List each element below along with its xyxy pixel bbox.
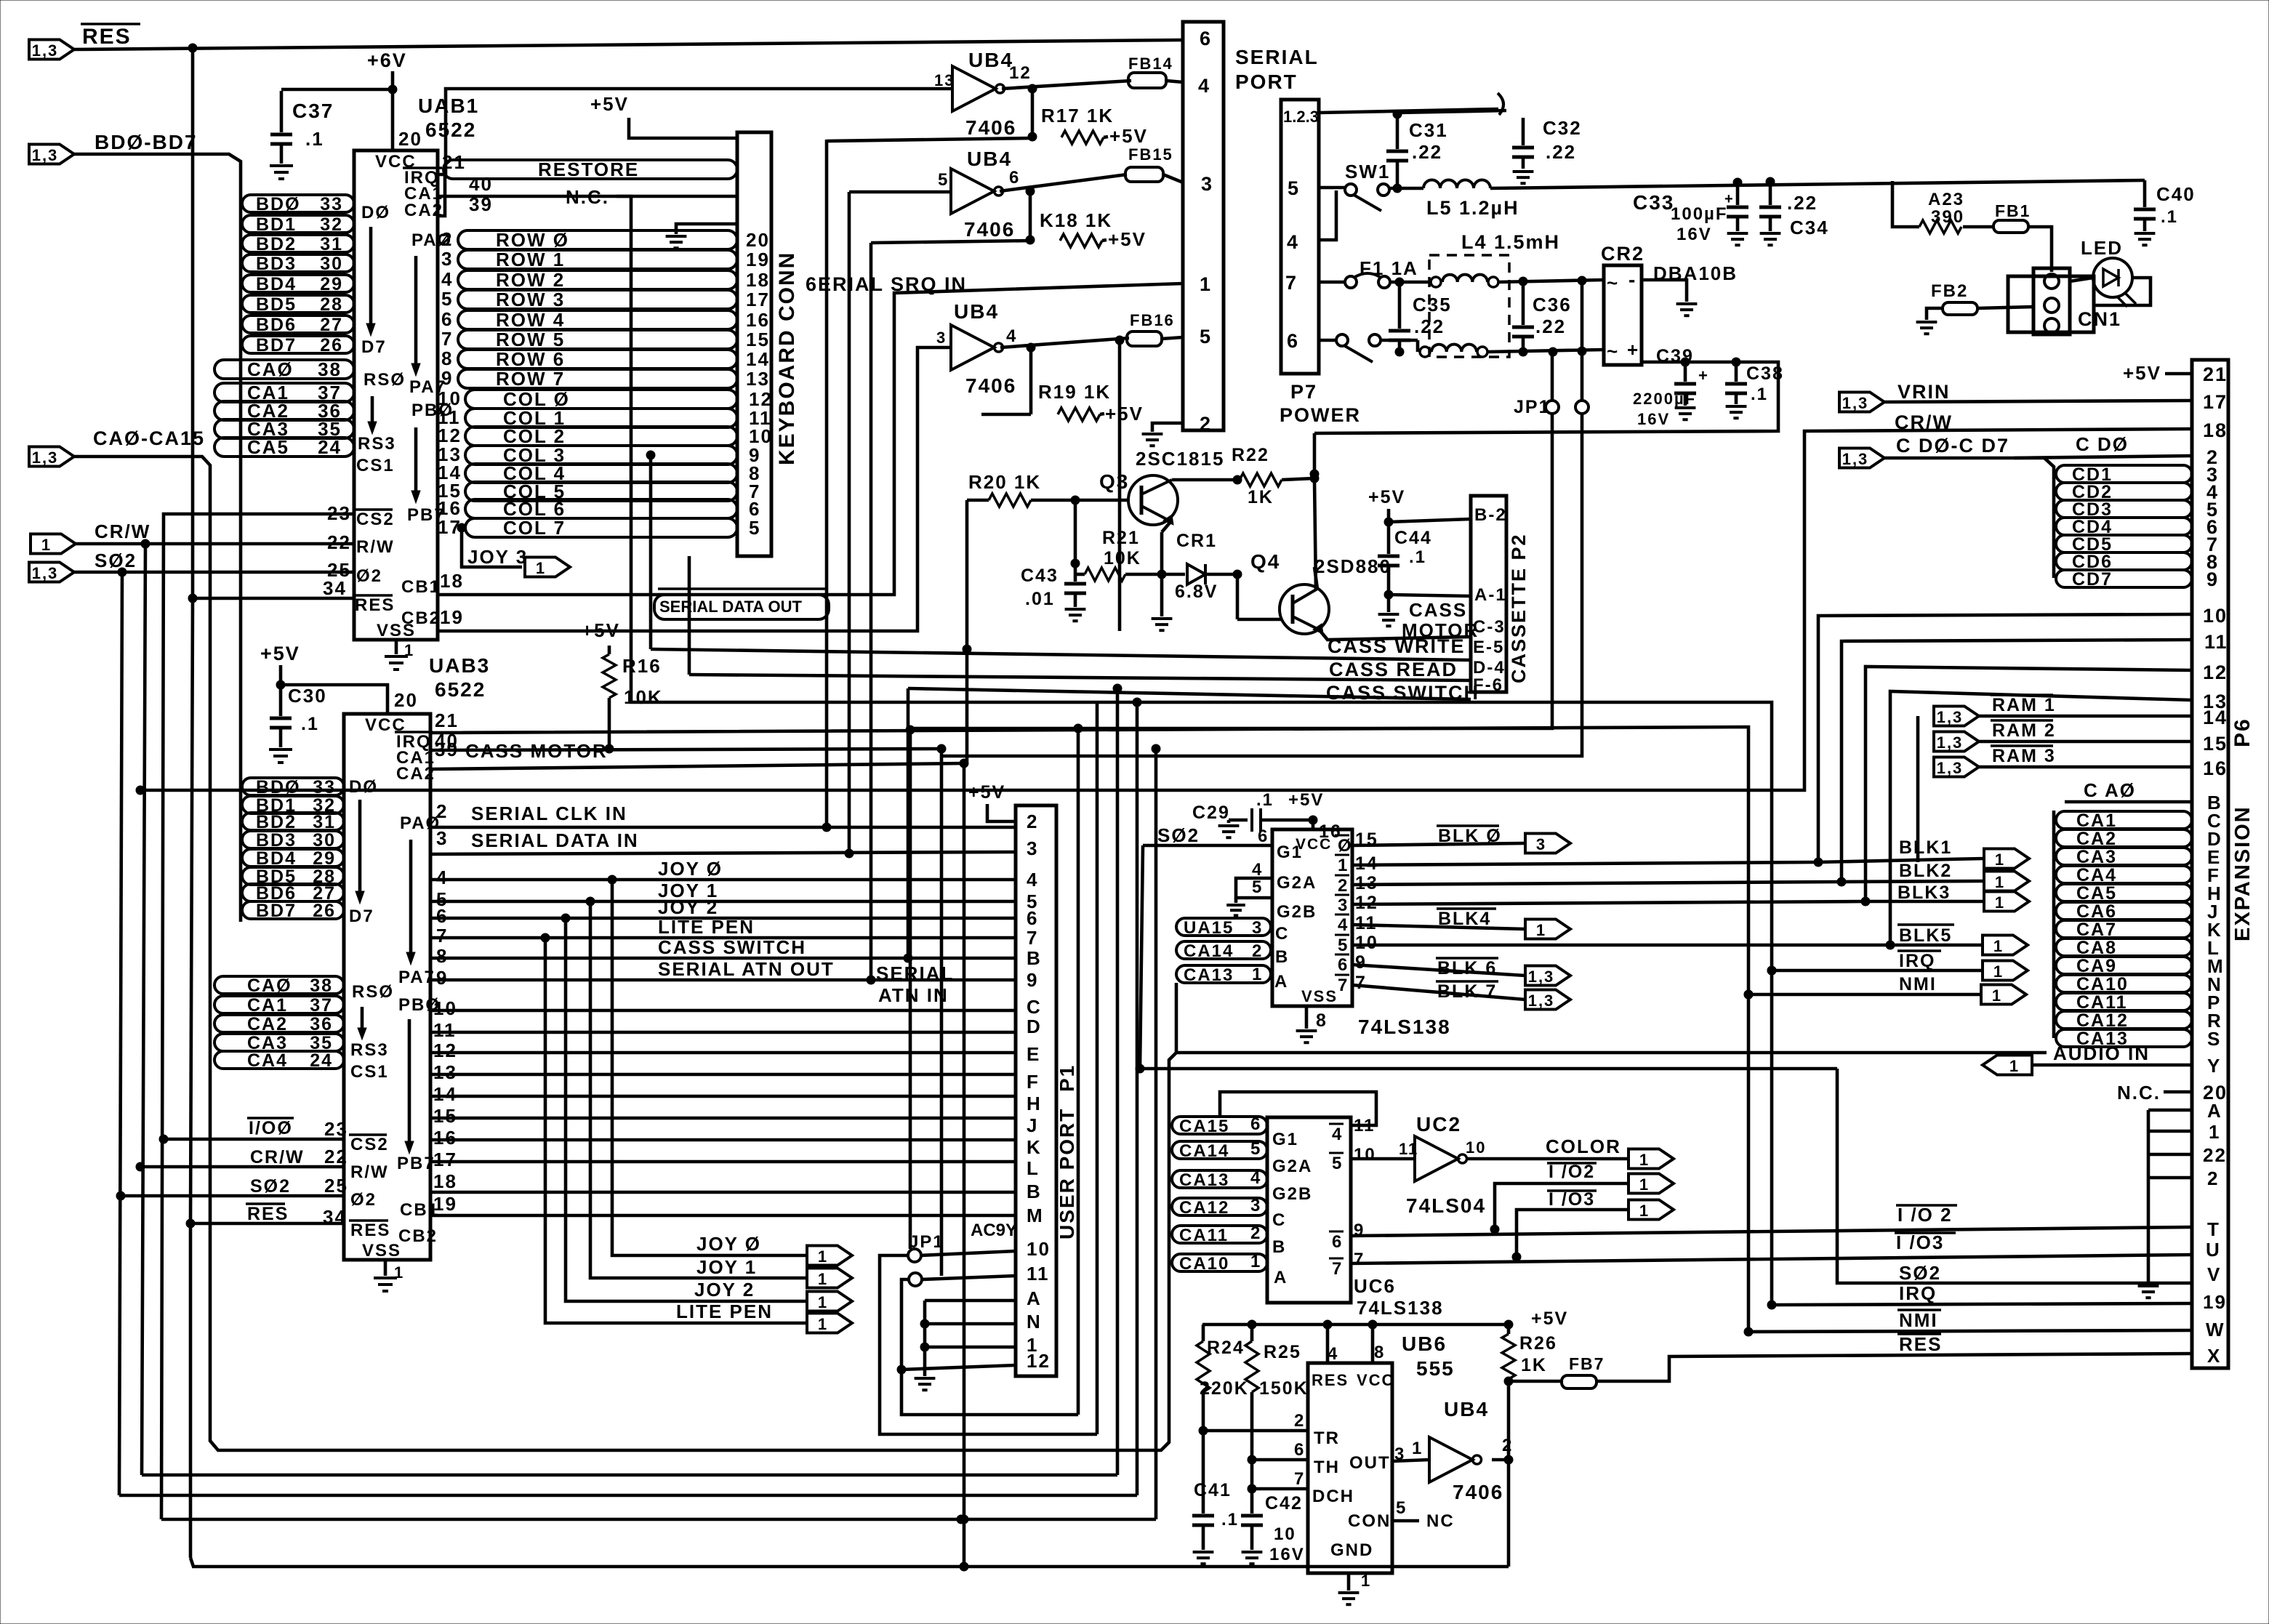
capacitor C43: [1064, 563, 1086, 607]
UAB1 pin 11 number: [438, 406, 461, 428]
user port pin F: [1027, 1071, 1040, 1093]
svg-text:BD2: BD2: [256, 812, 297, 832]
svg-text:CS2: CS2: [356, 510, 395, 529]
svg-text:11: 11: [1399, 1140, 1418, 1158]
net label RAM1: [1991, 695, 2056, 715]
svg-text:19: 19: [433, 1193, 457, 1215]
svg-text:E-5: E-5: [1473, 638, 1504, 657]
svg-text:1: 1: [2209, 1121, 2220, 1143]
LED label: [2081, 237, 2123, 259]
UC5 output 6 label: [1335, 954, 1349, 975]
svg-text:CA4: CA4: [247, 1050, 288, 1071]
wire UAB3 pin40 line: [430, 730, 941, 753]
svg-text:40: 40: [435, 730, 459, 752]
user port pin 5: [1027, 891, 1038, 912]
net label CA0-CA15: [93, 427, 205, 449]
inverter UB4 output (7406): [1429, 1437, 1482, 1482]
svg-text:FB16: FB16: [1130, 311, 1175, 329]
svg-text:1: 1: [1995, 893, 2005, 912]
net capsule CD7 to P6 pin 9: [2056, 568, 2219, 590]
wire JP1 riser drop B: [940, 749, 944, 1276]
net capsule BD3 pin 30 (UAB1): [242, 254, 354, 274]
svg-text:ROW Ø: ROW Ø: [496, 229, 569, 251]
svg-text:SØ2: SØ2: [1899, 1262, 1941, 1284]
net capsule BD5 pin 28 (UAB3): [242, 867, 344, 887]
svg-text:L: L: [1027, 1157, 1040, 1179]
ground below C30: [269, 749, 292, 763]
inductor L5 label: [1426, 197, 1519, 219]
wire UC5 out7 to BLK7: [1352, 973, 1525, 1000]
wire CASS READ: [689, 675, 1471, 680]
serial port pin 2: [1200, 413, 1212, 435]
net capsule ROW 3 to keyboard pin 17: [458, 289, 770, 310]
P6 pin Y: [2207, 1055, 2221, 1077]
junction IO0/riser: [957, 1515, 965, 1524]
wire 9VAC rail cont: [1397, 110, 1506, 113]
capacitor C40: [2134, 180, 2156, 231]
svg-text:P7: P7: [1290, 381, 1317, 403]
svg-text:RSØ: RSØ: [364, 370, 406, 390]
svg-text:G2B: G2B: [1272, 1184, 1312, 1204]
ground below C43: [1065, 609, 1086, 621]
svg-text:M: M: [1027, 1205, 1044, 1226]
ground CR2 minus: [1676, 304, 1698, 315]
resistor R25 150K: [1245, 1324, 1258, 1493]
wire NMI row: [1744, 1327, 2192, 1336]
svg-text:1,3: 1,3: [1842, 394, 1869, 412]
svg-text:9: 9: [441, 367, 453, 389]
ground UC5 G2 tie: [1226, 898, 1245, 915]
ground below C41: [1193, 1552, 1214, 1564]
capacitor C44: [1378, 522, 1399, 599]
svg-text:Ø: Ø: [1338, 836, 1353, 856]
svg-text:R22: R22: [1232, 445, 1269, 465]
svg-text:IRQ: IRQ: [1899, 1282, 1937, 1304]
svg-text:40: 40: [469, 173, 493, 195]
svg-text:1: 1: [1992, 986, 2002, 1005]
junction UAB3 IRQ riser: [906, 725, 915, 734]
ground below C34: [1760, 233, 1781, 245]
wire IRQ row: [1767, 1301, 2192, 1309]
svg-text:RES: RES: [82, 25, 132, 49]
svg-text:11: 11: [2204, 631, 2228, 653]
wire RAM1 to P6 pin14: [1918, 716, 2192, 862]
capacitor C39 2200uF: [1674, 362, 1709, 406]
svg-text:R19 1K: R19 1K: [1038, 381, 1111, 403]
wire SERIAL DATA IN row: [430, 827, 1016, 858]
wire R20 to Q3 base: [1031, 496, 1129, 505]
net capsule COL 6 to keyboard pin 6: [465, 498, 760, 520]
capacitor C33 100uF 16V: [1724, 182, 1748, 231]
svg-text:CA12: CA12: [2076, 1010, 2129, 1031]
555 DCH label: [1312, 1487, 1354, 1506]
svg-text:6: 6: [1294, 1440, 1305, 1460]
svg-text:Q4: Q4: [1250, 550, 1280, 573]
UAB3 PA arrow: [406, 840, 415, 965]
svg-text:13: 13: [934, 71, 955, 89]
junction RES / vertical: [188, 44, 197, 52]
UAB3 CA1 label: [396, 748, 435, 768]
net capsule CD4 to P6 pin 6: [2056, 516, 2219, 538]
svg-text:ROW 2: ROW 2: [496, 269, 565, 291]
curve mark on 9VAC rail: [1498, 93, 1503, 115]
svg-text:30: 30: [313, 830, 336, 851]
svg-text:1: 1: [1338, 856, 1349, 875]
wire UAB1 CB1 pin18 to SERIAL SRQ: [438, 284, 1183, 595]
inverter UC2 part number: [1406, 1194, 1486, 1217]
net label S02 (P6): [1899, 1262, 1941, 1284]
wire CASS WRITE: [651, 649, 1471, 660]
wire JP1 padA to pin 10: [921, 1251, 1016, 1255]
ground serial port pin 2: [1142, 434, 1163, 446]
svg-text:3: 3: [1027, 837, 1038, 859]
net label RESTORE capsule: [443, 158, 737, 180]
svg-text:RES: RES: [1312, 1371, 1349, 1389]
inverter UB4 gate B label: [967, 148, 1012, 170]
svg-text:7: 7: [1355, 973, 1367, 993]
svg-text:1.2.3: 1.2.3: [1283, 108, 1319, 126]
user port pin J: [1027, 1114, 1038, 1136]
svg-text:DØ: DØ: [361, 203, 390, 222]
user port pin B: [1027, 1181, 1042, 1202]
connector SERIAL PORT label: [1235, 46, 1319, 93]
wire UC5 out9 to BLK6: [1352, 952, 1525, 976]
svg-text:11: 11: [1027, 1263, 1050, 1285]
svg-text:Ø2: Ø2: [356, 566, 382, 586]
UAB3 pin 7 row LITE PEN: [430, 916, 1016, 946]
555 pin1 ground: [1349, 1572, 1371, 1591]
wire gate B output node: [1000, 174, 1127, 196]
svg-text:R26: R26: [1519, 1333, 1557, 1354]
svg-text:RS3: RS3: [350, 1040, 389, 1060]
svg-text:CA3: CA3: [2076, 847, 2117, 867]
net label NMI flag: [1899, 974, 1937, 994]
svg-text:26: 26: [320, 335, 343, 355]
svg-text:38: 38: [310, 976, 333, 996]
svg-text:10: 10: [1027, 1238, 1051, 1260]
svg-text:6: 6: [1338, 955, 1349, 975]
svg-text:1: 1: [1361, 1572, 1371, 1590]
UC5 VCC label: [1296, 836, 1332, 853]
user port pin E: [1027, 1043, 1040, 1065]
svg-text:LED: LED: [2081, 237, 2123, 259]
bridge CR2 terminals: [1607, 268, 1639, 362]
user port pin H: [1027, 1093, 1042, 1114]
svg-text:C: C: [1275, 924, 1289, 944]
svg-text:12: 12: [1027, 1350, 1051, 1372]
UAB1 PB7 label: [407, 505, 446, 525]
555 pin7 wire: [1252, 1469, 1308, 1489]
net flag RAM2 (sheets 1,3): [1934, 732, 1979, 752]
junction COL7/JOY3: [457, 523, 466, 532]
resistor R21 10K: [1085, 568, 1125, 581]
capacitor C29: [1229, 808, 1317, 832]
net capsule CA2 pin 36 (UAB1): [214, 400, 354, 422]
wire CR/W to UAB1 R/W: [76, 531, 354, 553]
svg-text:5: 5: [749, 517, 760, 539]
junction IRQ row: [1767, 966, 1776, 975]
jumper JP1 label (user port): [909, 1232, 944, 1252]
svg-text:12: 12: [1009, 63, 1032, 83]
ground keyboard pin1: [666, 236, 687, 248]
svg-text:S: S: [2207, 1028, 2221, 1050]
svg-text:C33: C33: [1633, 191, 1674, 214]
net flag JOY1 (sheet 1): [807, 1269, 852, 1289]
net label CASS SWITCH: [1326, 682, 1479, 704]
net flag S02 (sheets 1,3): [29, 563, 74, 583]
inverter gate A pin 12: [1009, 63, 1032, 83]
svg-text:5: 5: [938, 170, 949, 190]
ground below C39: [1675, 408, 1696, 419]
wire cass write from COL3: [649, 455, 653, 649]
UAB3 D7 label: [349, 907, 374, 926]
net flag IRQ (sheet 1): [1983, 961, 2028, 981]
label N.C. keyboard pin2: [566, 186, 737, 208]
UAB1 D0 label: [361, 203, 390, 222]
capacitor C43 label: [1021, 566, 1059, 609]
UAB1 pin 7 number: [441, 328, 453, 350]
svg-text:10K: 10K: [624, 686, 663, 708]
net flag BLK4 (sheet 1): [1525, 920, 1570, 940]
UAB3 RS arrow: [358, 1007, 366, 1040]
power label +5V (UC5): [1288, 790, 1324, 810]
wire Q4 collector up: [1314, 480, 1316, 590]
net capsule CA13 to P6 pin S: [2056, 1028, 2221, 1050]
wire UAB1 CB2 pin19 serial data out: [438, 347, 951, 631]
UAB1 RS0 label: [364, 370, 406, 390]
transistor Q4 part 2SD880: [1314, 555, 1391, 577]
svg-text:11: 11: [433, 1019, 457, 1041]
svg-text:6: 6: [1287, 330, 1299, 352]
svg-text:CAØ: CAØ: [247, 358, 294, 380]
UAB3 VSS ground: [374, 1260, 404, 1291]
wire R19 node: [1029, 347, 1033, 414]
svg-text:.22: .22: [1546, 141, 1576, 163]
net flag COLOR (sheet 1): [1629, 1149, 1674, 1170]
555 RES label: [1312, 1371, 1349, 1389]
net flag RES (sheets 1,3): [29, 40, 74, 60]
P6 pin W: [2206, 1319, 2225, 1340]
svg-text:SERIAL: SERIAL: [1235, 46, 1319, 68]
wire P7 pin5 to SW1: [1319, 186, 1345, 190]
svg-text:16: 16: [2203, 757, 2228, 779]
svg-text:L4 1.5mH: L4 1.5mH: [1461, 231, 1560, 253]
zener CR1 voltage: [1175, 582, 1218, 602]
svg-text:74LS138: 74LS138: [1357, 1297, 1444, 1319]
svg-text:CA11: CA11: [1179, 1226, 1229, 1245]
inverter UC2 pin 10: [1466, 1138, 1486, 1157]
svg-text:2: 2: [1294, 1411, 1305, 1431]
svg-text:7: 7: [441, 328, 453, 350]
svg-text:10K: 10K: [1104, 548, 1141, 568]
wire mesh riser x1590: [1152, 744, 1160, 1519]
fuse F1 label: [1360, 257, 1418, 279]
ground UC5: [1296, 1031, 1317, 1042]
net capsule CD6 to P6 pin 8: [2056, 551, 2219, 573]
net capsule CD5 to P6 pin 7: [2056, 534, 2219, 555]
connector CN1 label: [2078, 308, 2121, 330]
svg-text:18: 18: [440, 570, 464, 592]
net capsule CA12 to UC6 pin 3: [1172, 1196, 1267, 1218]
jumper JP1 pad A: [908, 1249, 921, 1262]
net flag BLK5 (sheet 1): [1983, 936, 2028, 956]
UAB3 PB7 label: [397, 1154, 435, 1173]
ground user port pins: [915, 1378, 936, 1390]
svg-text:A: A: [2207, 1100, 2222, 1122]
svg-text:DCH: DCH: [1312, 1487, 1354, 1506]
wire Q3 collector to R22: [1172, 475, 1242, 484]
net label S02: [95, 550, 137, 571]
net capsule CA5 pin 24 (UAB1): [214, 436, 354, 458]
svg-text:P1: P1: [1056, 1064, 1078, 1092]
svg-text:BLK2: BLK2: [1899, 861, 1952, 881]
net capsule ROW 4 to keyboard pin 16: [458, 309, 770, 331]
net label BLK7: [1436, 981, 1498, 1002]
svg-text:7406: 7406: [965, 116, 1016, 139]
UC5 output Ø label: [1335, 835, 1353, 856]
svg-text:8: 8: [1316, 1010, 1328, 1031]
svg-text:5: 5: [1332, 1154, 1343, 1173]
P6 pin V: [2207, 1263, 2221, 1285]
svg-text:1,3: 1,3: [32, 449, 59, 467]
UAB1 pin 40 number: [469, 173, 493, 195]
net flag JOY2 (sheet 1): [807, 1292, 852, 1312]
svg-text:CR/W: CR/W: [250, 1147, 305, 1167]
net capsule CA4 to P6 pin F: [2056, 864, 2220, 886]
net capsule CAØ pin 38 (UAB3): [214, 976, 344, 996]
wire S02 bottom run: [119, 1494, 1137, 1498]
svg-text:CA6: CA6: [2076, 901, 2117, 922]
capacitor C29 label: [1192, 803, 1230, 823]
wire +5V to cassette B-2: [1384, 509, 1471, 526]
net flag BD0-BD7 (sheets 1,3): [29, 145, 74, 165]
transistor Q4: [1280, 584, 1329, 634]
svg-text:1: 1: [1252, 965, 1263, 984]
net label RAM3: [1991, 746, 2056, 766]
svg-text:555: 555: [1416, 1357, 1455, 1380]
svg-text:15: 15: [746, 329, 770, 350]
inverter UB4 gate A label: [968, 49, 1013, 71]
svg-text:VSS: VSS: [362, 1241, 401, 1261]
UAB3 pin 8 CASS SWITCH row: [430, 936, 1016, 967]
svg-text:VSS: VSS: [377, 621, 416, 640]
resistor R24 value: [1200, 1378, 1249, 1399]
svg-text:.22: .22: [1412, 141, 1442, 163]
UAB1 pin 21 number: [442, 151, 466, 173]
switch SW2 (pin6): [1336, 334, 1381, 362]
user port pin L: [1027, 1157, 1040, 1179]
svg-text:21: 21: [435, 710, 459, 731]
UAB1 VCC label: [375, 152, 417, 172]
wire UB4 out node: [1492, 1455, 1513, 1464]
net label RAM2: [1991, 720, 2056, 741]
net label S02 (UC5): [1157, 824, 1200, 846]
wire LED anode: [2070, 278, 2093, 281]
UAB3 CB2 label: [398, 1226, 438, 1246]
svg-text:7: 7: [1332, 1259, 1343, 1279]
inverter UB4 gate C label: [954, 300, 999, 323]
svg-text:20: 20: [398, 128, 422, 150]
net capsule CA6 to P6 pin J: [2056, 901, 2219, 922]
wire JOY2 drop: [566, 918, 806, 1301]
connector KEYBOARD CONN body: [737, 132, 771, 556]
svg-text:1,3: 1,3: [1528, 968, 1555, 986]
svg-text:1: 1: [1993, 937, 2004, 955]
resistor R22 1K: [1240, 473, 1282, 486]
net label IO0 row: [159, 1118, 348, 1143]
junction CA bus / UC5 capsules: [1175, 1050, 1178, 1053]
power label +5V (keyboard pin4): [590, 93, 629, 115]
net capsule CA1 to P6 pin C: [2056, 810, 2222, 832]
capacitor C30 value: [301, 714, 319, 734]
svg-text:1K: 1K: [1248, 487, 1274, 507]
wire IO3 flag stub: [1512, 1210, 1627, 1261]
svg-text:UA15: UA15: [1184, 918, 1234, 938]
net label VRIN: [1897, 381, 1951, 403]
UAB3 PA0 label: [400, 813, 441, 833]
UAB3 pin 17 row: [430, 1149, 1016, 1170]
wire P6 pin11 riser: [1842, 640, 2192, 882]
svg-text:BLK1: BLK1: [1899, 837, 1952, 858]
svg-text:BD1: BD1: [256, 214, 297, 235]
wire JP1 pad1 riser: [1551, 352, 1554, 401]
resistor R23 390: [1919, 220, 1961, 233]
svg-text:BD7: BD7: [256, 335, 297, 355]
svg-text:I/OØ: I/OØ: [249, 1118, 293, 1138]
svg-text:J: J: [1027, 1114, 1038, 1136]
wire L4A to CR2: [1498, 276, 1604, 286]
net capsule ROW Ø to keyboard pin 20: [458, 229, 770, 251]
svg-text:17: 17: [2203, 391, 2228, 413]
wire FB2 to ground: [1927, 308, 1943, 320]
svg-text:C29: C29: [1192, 803, 1230, 823]
svg-text:.1: .1: [305, 128, 324, 150]
transistor Q3 part 2SC1815: [1136, 448, 1224, 470]
wire F1 to L4: [1390, 278, 1431, 286]
net label BLK6: [1436, 958, 1498, 978]
UAB1 pin 5 number: [441, 288, 453, 310]
svg-text:8: 8: [1374, 1343, 1385, 1362]
inductor L4 winding A: [1431, 275, 1498, 287]
net capsule COL 3 to keyboard pin 9: [465, 444, 760, 466]
svg-text:1: 1: [536, 559, 546, 577]
svg-text:1K: 1K: [1521, 1355, 1547, 1375]
UAB3 D0-D7 arrow: [356, 800, 364, 904]
UAB1 pin 17 number: [438, 516, 462, 538]
capacitor C44 label: [1394, 528, 1432, 548]
svg-text:FB1: FB1: [1995, 201, 2031, 220]
svg-text:BLK 6: BLK 6: [1437, 958, 1497, 978]
svg-text:5: 5: [1396, 1498, 1407, 1518]
net capsule BD3 pin 30 (UAB3): [242, 830, 344, 851]
user port pin 3: [1027, 837, 1038, 859]
svg-text:7: 7: [1354, 1250, 1365, 1269]
cassette pin A-1: [1474, 585, 1507, 605]
svg-text:31: 31: [320, 234, 343, 254]
svg-text:5: 5: [1250, 1139, 1261, 1159]
svg-text:22: 22: [324, 1146, 348, 1167]
svg-text:CA13: CA13: [1179, 1170, 1229, 1190]
svg-text:C44: C44: [1394, 528, 1432, 548]
wire C44 ground stub: [1387, 595, 1391, 612]
ground P6 ladder: [2138, 1286, 2159, 1298]
IC UAB3 name: [429, 654, 490, 701]
ground below C44: [1378, 614, 1399, 626]
svg-text:BD6: BD6: [256, 315, 297, 335]
svg-text:PA7: PA7: [398, 968, 435, 987]
svg-text:CASS SWITCH: CASS SWITCH: [658, 936, 806, 958]
net label CD0-CD7: [1896, 435, 2009, 457]
